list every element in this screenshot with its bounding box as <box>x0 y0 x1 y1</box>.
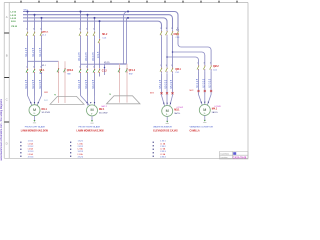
svg-text:5: 5 <box>93 28 94 30</box>
motor M3.1 <box>162 106 173 117</box>
svg-text:M: M <box>166 109 169 113</box>
svg-text:C1.2: C1.2 <box>102 70 108 72</box>
svg-text:4 X1:4: 4 X1:4 <box>28 157 33 159</box>
svg-text:M: M <box>90 108 93 112</box>
svg-text:U1-2 2.5: U1-2 2.5 <box>33 47 35 56</box>
svg-text:U2-1 2.5: U2-1 2.5 <box>26 79 28 88</box>
svg-text:U3-3 2.5: U3-3 2.5 <box>93 52 95 61</box>
svg-text:LAWN MOWER 6A/2.2KW: LAWN MOWER 6A/2.2KW <box>77 129 105 132</box>
svg-text:QM1.1: QM1.1 <box>42 31 49 33</box>
svg-text:M1.1: M1.1 <box>42 108 48 111</box>
svg-text:MX3: MX3 <box>150 92 154 94</box>
svg-text:Date/Note: Date/Note <box>221 153 230 156</box>
svg-text:L2 6A: L2 6A <box>160 148 166 151</box>
svg-text:www.lawnmower-schematics.com -: www.lawnmower-schematics.com - free wiri… <box>0 98 3 160</box>
control contact C1.2 <box>98 69 100 73</box>
svg-text:U7-3 2.5: U7-3 2.5 <box>210 78 212 87</box>
svg-text:5: 5 <box>171 28 172 30</box>
control contact M1.2 <box>98 39 100 43</box>
svg-text:3: 3 <box>86 28 87 30</box>
svg-text:U4-3 2.5: U4-3 2.5 <box>93 79 95 88</box>
svg-text:CB.2: CB.2 <box>174 33 180 36</box>
svg-text:U2-2 2.5: U2-2 2.5 <box>33 79 35 88</box>
svg-text:1: 1 <box>79 67 80 69</box>
svg-text:L1 6A: L1 6A <box>160 142 166 145</box>
svg-text:13 1.5: 13 1.5 <box>98 51 100 58</box>
svg-text:L3 03: L3 03 <box>11 18 17 20</box>
svg-text:5: 5 <box>40 67 41 69</box>
svg-text:1: 1 <box>197 63 198 65</box>
svg-text:1: 1 <box>160 28 161 30</box>
svg-text:L3 6A: L3 6A <box>160 153 166 156</box>
svg-text:3/0.37kW: 3/0.37kW <box>42 112 51 114</box>
svg-text:U7-2 2.5: U7-2 2.5 <box>203 78 205 87</box>
svg-text:1: 1 <box>79 28 80 30</box>
svg-text:N 03: N 03 <box>11 21 16 23</box>
svg-text:1: 1 <box>160 65 161 67</box>
svg-text:2 X3:2: 2 X3:2 <box>160 146 165 148</box>
svg-text:L1 6A: L1 6A <box>28 142 34 145</box>
svg-text:C3.1: C3.1 <box>175 72 179 74</box>
svg-text:1: 1 <box>26 28 27 30</box>
wires into motor <box>81 96 95 106</box>
svg-text:2 X1:2: 2 X1:2 <box>28 146 33 148</box>
svg-text:C1.6: C1.6 <box>102 37 106 39</box>
svg-text:FRONT RIGHT BLADE: FRONT RIGHT BLADE <box>79 126 101 129</box>
svg-text:3/0.37kW: 3/0.37kW <box>99 112 108 114</box>
clutch feed rail branch 1 <box>28 60 59 62</box>
svg-text:4 X2:4: 4 X2:4 <box>78 157 83 159</box>
clutch 2 contacts QF1.2 <box>118 69 120 73</box>
svg-text:5: 5 <box>210 63 211 65</box>
feeder fan to branch 4 <box>162 37 212 67</box>
svg-text:M2.1: M2.1 <box>99 108 105 111</box>
svg-text:L3 6A: L3 6A <box>28 153 34 156</box>
svg-text:3: 3 <box>86 67 87 69</box>
svg-text:M1.2/5: M1.2/5 <box>104 62 110 64</box>
wire drops branch 1 from buses <box>28 12 42 31</box>
svg-text:5A/5%: 5A/5% <box>212 111 218 114</box>
svg-text:U3-1 2.5: U3-1 2.5 <box>79 52 81 61</box>
clutch 1 contacts QF1.1 <box>57 69 59 73</box>
svg-text:C4.1: C4.1 <box>213 69 217 71</box>
svg-text:U5-1 2.5: U5-1 2.5 <box>160 79 162 88</box>
svg-text:7kW: 7kW <box>67 73 71 75</box>
wires into motor <box>28 96 42 106</box>
svg-text:M3.1: M3.1 <box>174 109 180 112</box>
terminal list <box>153 142 154 143</box>
control wire <box>99 21 101 76</box>
clutch feed rail branch 2 <box>81 63 127 65</box>
svg-text:W.4: W.4 <box>176 30 179 32</box>
svg-text:QF1.1: QF1.1 <box>67 70 74 72</box>
svg-text:MX2: MX2 <box>190 90 194 92</box>
svg-text:4 X3:4: 4 X3:4 <box>160 157 165 159</box>
svg-text:QF1.2: QF1.2 <box>129 70 136 72</box>
svg-text:7kW: 7kW <box>129 73 133 75</box>
svg-text:U1-3 2.5: U1-3 2.5 <box>40 47 42 56</box>
blade deck 2 <box>107 96 141 104</box>
feeder bundle to clutch 2 <box>105 12 129 76</box>
svg-text:L2 03: L2 03 <box>11 15 17 17</box>
sheet frame <box>4 3 248 159</box>
svg-text:QM.1: QM.1 <box>175 69 181 71</box>
svg-text:3: 3 <box>33 67 34 69</box>
svg-text:QM.2: QM.2 <box>213 66 219 68</box>
svg-text:3: 3 <box>204 63 205 65</box>
top ruler ticks <box>21 1 237 3</box>
motor M1.1 <box>29 105 40 116</box>
svg-text:0.25kW: 0.25kW <box>214 106 221 108</box>
svg-text:L2 6A: L2 6A <box>28 148 34 151</box>
svg-text:3: 3 <box>166 28 167 30</box>
svg-text:5A/5%: 5A/5% <box>174 112 180 115</box>
wires into motor <box>199 95 212 106</box>
wires into motor <box>162 96 173 107</box>
svg-text:FRONT LEFT BLADE: FRONT LEFT BLADE <box>25 126 46 129</box>
svg-text:ELEVADOR DE CAJAS: ELEVADOR DE CAJAS <box>153 129 178 132</box>
terminal list <box>20 142 21 143</box>
svg-text:U5-3 2.5: U5-3 2.5 <box>171 79 173 88</box>
svg-text:MX1: MX1 <box>44 92 48 94</box>
svg-text:U3-2 2.5: U3-2 2.5 <box>86 52 88 61</box>
svg-text:M1.2: M1.2 <box>102 34 108 36</box>
svg-text:1 X3:1: 1 X3:1 <box>160 141 165 143</box>
svg-text:U4-2 2.5: U4-2 2.5 <box>86 79 88 88</box>
svg-text:2 X2:2: 2 X2:2 <box>78 146 83 148</box>
svg-text:5: 5 <box>171 65 172 67</box>
motor M4.1 <box>199 105 210 116</box>
svg-text:5: 5 <box>40 28 41 30</box>
blade deck 1 <box>50 96 84 104</box>
earth / PE below M3.1 <box>166 116 168 121</box>
svg-text:W12: W12 <box>44 100 48 102</box>
wire drops branch 2 from buses <box>81 12 95 31</box>
svg-text:L2 6A: L2 6A <box>78 148 84 151</box>
svg-text:L1 6A: L1 6A <box>78 142 84 145</box>
svg-text:C1.1: C1.1 <box>40 70 46 72</box>
svg-text:L1 03: L1 03 <box>11 12 17 14</box>
svg-text:PE 03: PE 03 <box>11 26 18 28</box>
svg-text:PE: PE <box>54 95 56 97</box>
svg-text:C1.1: C1.1 <box>42 35 47 37</box>
svg-text:M: M <box>33 108 36 112</box>
motor M2.1 <box>87 105 98 116</box>
svg-text:U2-3 2.5: U2-3 2.5 <box>40 79 42 88</box>
terminal list <box>70 142 71 143</box>
left ruler ticks <box>4 33 9 122</box>
svg-text:M1.1: M1.1 <box>42 65 46 67</box>
earth / PE below M4.1 <box>204 115 206 120</box>
svg-text:3: 3 <box>166 65 167 67</box>
svg-text:5: 5 <box>93 67 94 69</box>
svg-text:8A/2.2: 8A/2.2 <box>101 105 106 108</box>
earth / PE below M1.1 <box>34 116 36 121</box>
svg-text:U4-1 2.5: U4-1 2.5 <box>79 79 81 88</box>
svg-text:Location: Location <box>221 156 228 159</box>
svg-text:LAWN MOWER 6A/2.2KW: LAWN MOWER 6A/2.2KW <box>21 129 49 132</box>
svg-text:L3 6A: L3 6A <box>78 153 84 156</box>
svg-text:1 X2:1: 1 X2:1 <box>78 141 83 143</box>
svg-text:VIBRATING CONVEYOR: VIBRATING CONVEYOR <box>190 126 214 129</box>
bus lines <box>23 12 178 30</box>
svg-text:3 X1:3: 3 X1:3 <box>28 151 33 153</box>
svg-text:M: M <box>203 108 206 112</box>
clutch 2 wires <box>120 64 128 103</box>
svg-text:WASTE ELEVATOR: WASTE ELEVATOR <box>153 126 172 129</box>
svg-text:M4.1: M4.1 <box>212 108 218 111</box>
svg-text:PE: PE <box>109 94 111 96</box>
clutch 1 wires <box>59 61 66 103</box>
earth / PE below M2.1 <box>91 116 93 121</box>
svg-text:1 X1:1: 1 X1:1 <box>28 141 33 143</box>
svg-text:1: 1 <box>26 67 27 69</box>
svg-text:0.25kW: 0.25kW <box>177 107 184 109</box>
svg-text:U1-1 2.5: U1-1 2.5 <box>26 47 28 56</box>
svg-text:C1.3: C1.3 <box>176 37 180 39</box>
svg-text:CAMILLA: CAMILLA <box>190 129 200 132</box>
svg-text:3 X2:3: 3 X2:3 <box>78 151 83 153</box>
svg-text:CASA 79-08: CASA 79-08 <box>233 156 247 159</box>
svg-text:U7-1 2.5: U7-1 2.5 <box>197 78 199 87</box>
svg-text:U5-2 2.5: U5-2 2.5 <box>166 79 168 88</box>
svg-text:3: 3 <box>33 28 34 30</box>
svg-text:3 X3:3: 3 X3:3 <box>160 151 165 153</box>
title block <box>220 152 249 159</box>
